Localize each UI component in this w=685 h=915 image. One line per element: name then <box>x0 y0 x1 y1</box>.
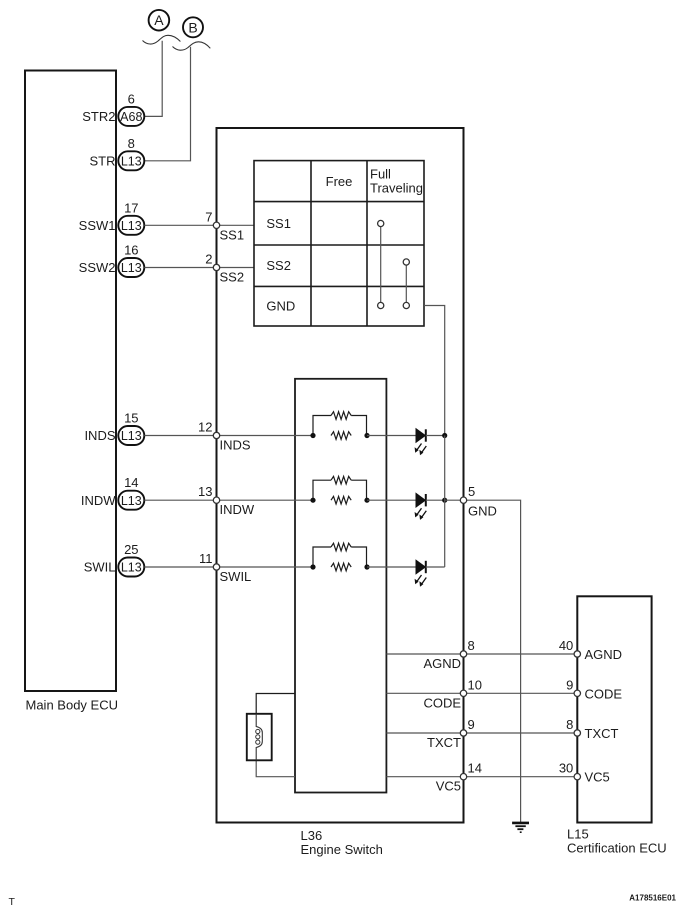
svg-text:T: T <box>9 896 16 908</box>
connector circle A <box>149 10 170 31</box>
wire STR2 to circle A <box>144 41 162 117</box>
wire STR to circle B <box>144 47 190 161</box>
svg-text:L36: L36 <box>301 828 323 843</box>
junction dot right of R1 <box>364 433 369 438</box>
svg-text:14: 14 <box>124 475 138 490</box>
svg-text:L13: L13 <box>121 561 142 575</box>
pin 11 circle <box>213 564 219 570</box>
svg-text:25: 25 <box>124 542 138 557</box>
wire VC5 from switch unit to pin 14 <box>386 776 463 778</box>
svg-text:8: 8 <box>566 717 573 732</box>
svg-text:SSW2: SSW2 <box>79 260 116 275</box>
svg-text:CODE: CODE <box>423 695 461 710</box>
LED D3 <box>415 560 427 587</box>
connector L13 (INDS) <box>118 426 144 445</box>
wire pin 11 to resistor R3 <box>217 566 314 568</box>
LED D2 <box>415 493 427 520</box>
LED D1 <box>415 429 427 456</box>
svg-text:8: 8 <box>128 136 135 151</box>
pin 9 circle (engine switch) <box>460 730 466 736</box>
svg-text:9: 9 <box>566 677 573 692</box>
wire SS1 row from ECU to pin 7 <box>144 224 216 226</box>
junction dot right of R2 <box>364 498 369 503</box>
junction dot on ground bus <box>442 433 447 438</box>
GND bus vertical wire <box>444 436 446 568</box>
svg-text:SS2: SS2 <box>220 270 245 285</box>
resistor R1b (bottom) <box>331 432 351 440</box>
svg-text:Free: Free <box>326 174 353 189</box>
wire pin 8 to certification ECU pin 40 <box>464 653 578 655</box>
wire pin 13 to resistor R2 <box>217 499 314 501</box>
pin 7 circle <box>213 222 219 228</box>
pin 40 circle (certification ECU) <box>574 651 580 657</box>
pin 5 circle <box>460 497 466 503</box>
svg-text:SWIL: SWIL <box>84 560 116 575</box>
wire pin 5 to ground symbol <box>464 500 521 823</box>
junction dot left of R2 <box>310 498 315 503</box>
svg-text:STR: STR <box>90 153 116 168</box>
svg-text:40: 40 <box>559 638 573 653</box>
svg-text:Certification ECU: Certification ECU <box>567 841 667 856</box>
svg-text:30: 30 <box>559 761 573 776</box>
pin 12 circle <box>213 432 219 438</box>
svg-text:6: 6 <box>128 91 135 106</box>
wire TXCT from switch unit to pin 9 <box>386 732 463 734</box>
svg-text:2: 2 <box>205 252 212 267</box>
svg-text:VC5: VC5 <box>585 770 610 785</box>
connector circle B <box>183 17 203 37</box>
svg-text:VC5: VC5 <box>436 779 461 794</box>
connector A68 (STR2) <box>118 107 144 126</box>
pin 8 circle (certification ECU) <box>574 730 580 736</box>
wire SS2 row from ECU to pin 2 <box>144 267 216 269</box>
wire INDW row from ECU to pin 13 <box>144 499 216 501</box>
wire CODE from switch unit to pin 10 <box>386 692 463 694</box>
ground symbol <box>512 823 529 832</box>
svg-text:L13: L13 <box>121 261 142 275</box>
svg-text:L13: L13 <box>121 219 142 233</box>
wire AGND from switch unit to pin 8 <box>386 653 463 655</box>
svg-text:12: 12 <box>198 420 212 435</box>
resistor R1a (top) <box>331 412 351 420</box>
connector L13 (SWIL) <box>118 558 144 577</box>
connector L13 (INDW) <box>118 491 144 510</box>
pin 14 circle (engine switch) <box>460 774 466 780</box>
pin 2 circle <box>213 264 219 270</box>
svg-text:A: A <box>154 12 164 28</box>
pin 30 circle (certification ECU) <box>574 774 580 780</box>
svg-text:TXCT: TXCT <box>427 735 461 750</box>
svg-text:Traveling: Traveling <box>370 181 423 196</box>
svg-text:13: 13 <box>198 484 212 499</box>
wire pin 9 to certification ECU pin 8 <box>464 732 578 734</box>
svg-text:8: 8 <box>468 638 475 653</box>
svg-text:10: 10 <box>468 677 482 692</box>
resistor R3b (bottom) <box>331 563 351 571</box>
svg-text:14: 14 <box>468 761 482 776</box>
connector L13 (SSW2) <box>118 258 144 277</box>
svg-text:SS1: SS1 <box>220 227 245 242</box>
svg-text:AGND: AGND <box>585 647 623 662</box>
svg-text:SWIL: SWIL <box>220 569 252 584</box>
wire bus to pin 5 GND <box>445 499 464 501</box>
svg-text:B: B <box>188 19 197 35</box>
table contact SS1 to GND (full traveling) <box>378 220 384 308</box>
pin 8 circle (engine switch) <box>460 651 466 657</box>
svg-text:L13: L13 <box>121 429 142 443</box>
svg-text:Engine Switch: Engine Switch <box>301 842 383 857</box>
wire LED D1 to ground bus <box>426 435 445 437</box>
svg-text:TXCT: TXCT <box>585 726 619 741</box>
svg-text:A178516E01: A178516E01 <box>629 894 676 903</box>
svg-text:AGND: AGND <box>423 656 461 671</box>
break squiggle under B <box>173 42 211 50</box>
svg-text:STR2: STR2 <box>82 109 115 124</box>
wire LED D3 to ground bus <box>426 566 445 568</box>
wire pin 2 into switch <box>217 267 255 269</box>
table header Full Traveling <box>370 167 423 196</box>
table contact SS2 to GND (full traveling) <box>403 259 409 309</box>
svg-text:11: 11 <box>199 551 213 566</box>
Engine Switch box L36 <box>217 128 464 823</box>
svg-text:SSW1: SSW1 <box>79 218 116 233</box>
wire SWIL row from ECU to pin 11 <box>144 566 216 568</box>
svg-text:A68: A68 <box>120 110 142 124</box>
pin 9 circle (certification ECU) <box>574 690 580 696</box>
pin 10 circle (engine switch) <box>460 690 466 696</box>
Main Body ECU box <box>25 71 116 692</box>
wire INDS row from ECU to pin 12 <box>144 435 216 437</box>
svg-text:17: 17 <box>124 200 138 215</box>
junction dot left of R3 <box>310 564 315 569</box>
svg-text:7: 7 <box>205 209 212 224</box>
svg-text:INDW: INDW <box>81 493 116 508</box>
wire LED D2 to ground bus <box>426 499 445 501</box>
resistor R2a (top) <box>331 476 351 484</box>
junction dot left of R1 <box>310 433 315 438</box>
wire coil top to switch unit (CODE side) <box>256 694 295 714</box>
resistor pair R3 bypass loop <box>313 547 331 567</box>
svg-text:9: 9 <box>468 717 475 732</box>
junction dot on ground bus <box>442 498 447 503</box>
svg-text:INDS: INDS <box>84 428 115 443</box>
svg-text:GND: GND <box>266 299 295 314</box>
junction dot right of R3 <box>364 564 369 569</box>
svg-text:GND: GND <box>468 504 497 519</box>
svg-text:INDW: INDW <box>220 502 255 517</box>
svg-text:SS1: SS1 <box>266 216 291 231</box>
coil element <box>256 714 262 761</box>
wire pin 7 into switch <box>217 224 255 226</box>
wire pin 14 to certification ECU pin 30 <box>464 776 578 778</box>
svg-text:Full: Full <box>370 167 391 182</box>
svg-text:16: 16 <box>124 243 138 258</box>
svg-text:CODE: CODE <box>585 686 623 701</box>
wire resistor R2 to LED D2 <box>367 499 416 501</box>
resistor R3a (top) <box>331 543 351 551</box>
resistor pair R2 bypass loop <box>313 480 331 500</box>
wire table GND to LED ground bus <box>424 306 445 436</box>
svg-text:L13: L13 <box>121 494 142 508</box>
svg-text:L15: L15 <box>567 827 589 842</box>
wire resistor R3 to LED D3 <box>367 566 416 568</box>
Certification ECU box L15 <box>577 596 651 822</box>
wire pin 12 to resistor R1 <box>217 435 314 437</box>
resistor R2b (bottom) <box>331 496 351 504</box>
svg-text:SS2: SS2 <box>266 258 291 273</box>
break squiggle under A <box>143 35 181 44</box>
svg-text:15: 15 <box>124 411 138 426</box>
inner switch unit box <box>295 379 386 793</box>
wire resistor R1 to LED D1 <box>367 435 416 437</box>
svg-text:5: 5 <box>468 484 475 499</box>
transponder key coil box <box>247 714 272 761</box>
svg-text:INDS: INDS <box>220 438 251 453</box>
svg-text:L13: L13 <box>121 154 142 168</box>
connector L13 (SSW1) <box>118 216 144 235</box>
pin 13 circle <box>213 497 219 503</box>
connector L13 (STR) <box>118 151 144 170</box>
resistor pair R1 bypass loop <box>313 416 331 436</box>
wire coil bottom to VC5 net <box>256 760 295 776</box>
wire pin 10 to certification ECU pin 9 <box>464 692 578 694</box>
switch position table grid <box>254 161 424 326</box>
svg-text:Main Body ECU: Main Body ECU <box>26 698 118 713</box>
